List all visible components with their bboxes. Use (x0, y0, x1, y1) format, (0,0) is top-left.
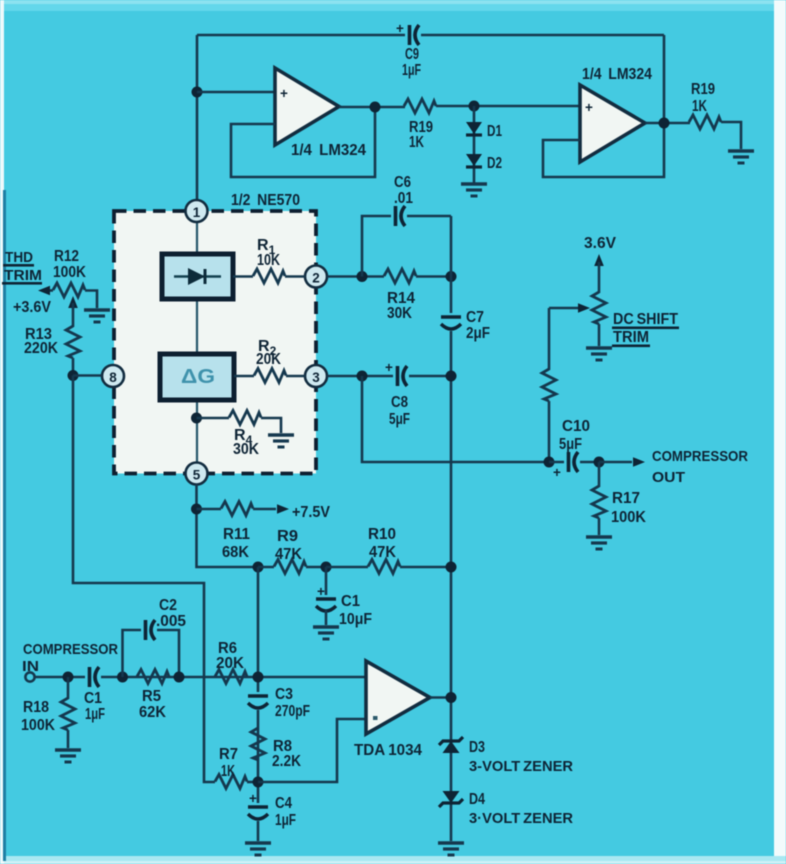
svg-text:2μF: 2μF (466, 325, 490, 342)
wire: down to C10 (548, 401, 551, 462)
node: R7/R8/C4 junction (253, 777, 264, 788)
svg-text:R12: R12 (54, 248, 79, 265)
svg-text:COMPRESSOR: COMPRESSOR (23, 641, 118, 658)
svg-text:+: + (249, 791, 257, 806)
capacitor C6 (.01) loop (362, 174, 451, 277)
ground (DC shift pot) (586, 348, 612, 360)
resistor R18 (100K) (21, 677, 75, 748)
node: U2 output (659, 118, 670, 129)
capacitor C1 input (1uF) (84, 664, 105, 723)
svg-text:3.6V: 3.6V (584, 235, 616, 252)
capacitor C1 (10uF) (313, 567, 372, 628)
svg-text:C3: C3 (275, 686, 293, 703)
svg-text:270pF: 270pF (275, 703, 310, 720)
wire: pin 2 line (327, 275, 384, 278)
resistor R6 (20K) (215, 640, 247, 684)
svg-text:100K: 100K (21, 717, 55, 734)
node: pin 8 junction (68, 370, 79, 381)
svg-text:+: + (585, 100, 593, 115)
op-amp TDA 1034 (366, 661, 430, 734)
resistor R13 (220K) (24, 326, 80, 358)
resistor (DC shift series) (542, 369, 556, 401)
capacitor C7 (2uF) (438, 309, 490, 342)
wire: x258 column (bias to input to C3/R8) (257, 567, 260, 841)
wire: main right column (450, 216, 453, 841)
zener D3 (439, 737, 573, 775)
diode D2 (466, 154, 482, 167)
svg-text:1K: 1K (409, 134, 424, 151)
svg-text:100K: 100K (611, 509, 646, 526)
svg-text:3: 3 (312, 370, 320, 385)
node: R18 junction (63, 672, 74, 683)
svg-text:1/4 LM324: 1/4 LM324 (582, 66, 652, 83)
zener D4 (439, 791, 573, 827)
svg-text:+: + (396, 21, 404, 36)
wire: internal vertical bus (196, 221, 198, 463)
ground (right R19) (728, 151, 754, 163)
potentiometer R12 (100K) (38, 248, 97, 327)
svg-text:8: 8 (109, 370, 117, 385)
wire: C8 column down to out line (362, 376, 549, 462)
IC NE570 dashed block (114, 211, 316, 474)
svg-text:C7: C7 (466, 309, 484, 326)
wire: left vertical to pin 1 (196, 35, 199, 200)
node: pin 3 right junction (446, 371, 457, 382)
ground (R18) (55, 750, 81, 762)
svg-text:1μF: 1μF (402, 62, 421, 79)
wire: R19 to U2 input (436, 105, 580, 108)
wire: pin 8 node down to R7 (73, 376, 215, 783)
svg-text:1: 1 (193, 205, 201, 220)
svg-text:3-VOLT ZENER: 3-VOLT ZENER (469, 758, 573, 775)
resistor R7 (1K) (215, 746, 258, 789)
wire: R13 to pin 8 node (72, 358, 75, 376)
resistor R17 (100K) (592, 462, 646, 535)
rectifier cell (diode box) (162, 254, 233, 299)
node: diode clamp junction (469, 101, 480, 112)
svg-text:30K: 30K (233, 441, 259, 458)
resistor R8 (2.2K) (251, 728, 301, 770)
svg-text:5: 5 (193, 468, 201, 483)
resistor R19 (1K, right) (689, 115, 721, 129)
node: pin 3 / C8 junction (357, 371, 368, 382)
svg-text:R7: R7 (219, 746, 238, 763)
svg-text:1/4 LM324: 1/4 LM324 (291, 142, 366, 159)
svg-text:C10: C10 (562, 418, 590, 435)
svg-text:R11: R11 (223, 526, 250, 543)
diode D1 (466, 122, 482, 135)
capacitor C2 (.005) loop (123, 597, 187, 677)
pin 2 (305, 266, 327, 288)
svg-text:C1: C1 (84, 690, 102, 707)
svg-text:5μF: 5μF (559, 436, 582, 453)
resistor R14 (30K) (384, 269, 451, 322)
svg-text:100K: 100K (53, 264, 86, 281)
svg-text:1μF: 1μF (85, 706, 105, 723)
capacitor C8 (5uF) (385, 360, 410, 428)
ground (C1) (313, 627, 339, 639)
svg-text:20K: 20K (256, 351, 281, 368)
node: pin 2 / C6 junction (357, 271, 368, 282)
svg-text:R17: R17 (612, 490, 640, 507)
svg-text:5μF: 5μF (389, 411, 410, 428)
wire: TDA output (430, 696, 451, 699)
svg-text:1K: 1K (221, 763, 235, 780)
ground (R4) (268, 435, 294, 447)
wire: TDA inverting input path (258, 719, 366, 782)
node: C2/R5 left junction (117, 672, 128, 683)
svg-text:TDA 1034: TDA 1034 (354, 742, 422, 759)
svg-text:THD: THD (5, 249, 33, 266)
svg-text:C6: C6 (394, 174, 411, 191)
wire: U1 + input (197, 91, 275, 94)
input terminal (25, 672, 34, 681)
wire: U2 feedback loop (543, 123, 664, 177)
label DC SHIFT TRIM (612, 311, 679, 347)
svg-text:C1: C1 (341, 593, 360, 610)
svg-text:20K: 20K (216, 655, 244, 672)
page left edge line (3, 190, 6, 861)
node: compressor out junction (594, 457, 605, 468)
arrow: compressor out (599, 448, 748, 486)
pin 5 (186, 463, 208, 485)
node: R5 right junction (174, 672, 185, 683)
svg-text:3·VOLT ZENER: 3·VOLT ZENER (469, 810, 573, 827)
svg-text:R10: R10 (368, 526, 396, 543)
svg-text:R9: R9 (277, 528, 298, 545)
wire: U1 feedback loop (231, 107, 375, 177)
gain cell (delta-G box) (160, 354, 234, 400)
op-amp U1 (1/4 LM324) (275, 68, 339, 145)
svg-text:D3: D3 (469, 739, 485, 756)
svg-text:D2: D2 (487, 155, 502, 172)
resistor R9 (47K) (258, 528, 326, 574)
svg-text:R18: R18 (23, 699, 49, 716)
svg-text:D1: D1 (487, 123, 502, 140)
svg-text:220K: 220K (24, 340, 58, 357)
wire: R19 to ground (721, 122, 741, 149)
node: C10 left (544, 457, 555, 468)
pin 8 (102, 365, 124, 387)
svg-text:1μF: 1μF (275, 812, 296, 829)
node: C1 bias junction (321, 562, 332, 573)
svg-text:D4: D4 (469, 791, 485, 808)
svg-text:2: 2 (312, 271, 320, 286)
svg-text:10μF: 10μF (339, 611, 372, 628)
svg-text:30K: 30K (387, 305, 412, 322)
svg-text:.005: .005 (156, 613, 186, 630)
svg-text:C4: C4 (275, 795, 292, 812)
svg-text:.01: .01 (394, 190, 413, 207)
resistor R4 (30K) (197, 411, 282, 459)
pin 3 (305, 365, 327, 387)
node: right column bias junction (446, 562, 457, 573)
resistor R5 (62K) (137, 670, 169, 722)
ground (R17) (586, 537, 612, 549)
svg-text:R5: R5 (142, 688, 161, 705)
potentiometer DC SHIFT TRIM (549, 292, 606, 370)
wire: input line (35, 676, 365, 679)
node: input / C3 junction (253, 672, 264, 683)
resistor R11 (68K) to +7.5V (197, 502, 331, 562)
node: bias line left (253, 562, 264, 573)
svg-text:47K: 47K (275, 546, 302, 563)
svg-text:C2: C2 (159, 597, 177, 614)
svg-text:10K: 10K (257, 252, 280, 269)
svg-text:+: + (317, 584, 325, 599)
svg-text:+7.5V: +7.5V (292, 504, 330, 521)
capacitor C10 (5uF) (549, 418, 599, 480)
wire: top feedback bus (197, 34, 664, 37)
op-amp U2 (1/4 LM324) (580, 85, 645, 162)
capacitor C4 (1uF) (245, 791, 296, 829)
node: U1 output (370, 102, 381, 113)
ground (diode clamp) (461, 184, 487, 196)
svg-text:+: + (280, 86, 288, 101)
svg-text:DC SHIFT: DC SHIFT (613, 311, 678, 328)
wire: U1 output (339, 106, 405, 109)
svg-text:68K: 68K (222, 544, 249, 561)
svg-text:C8: C8 (391, 394, 408, 411)
svg-text:1/2 NE570: 1/2 NE570 (231, 192, 300, 209)
label THD TRIM (2, 249, 42, 285)
wire: pin 8 lead (73, 374, 102, 377)
svg-text:1K: 1K (692, 98, 707, 115)
svg-text:+: + (385, 360, 393, 375)
svg-text:+3.6V: +3.6V (13, 299, 51, 316)
arrow: 3.6V supply (594, 254, 604, 293)
wire: pin 5 down (197, 484, 259, 567)
svg-text:C9: C9 (405, 46, 419, 63)
svg-text:R19: R19 (691, 81, 715, 98)
pin 1 (186, 200, 208, 222)
wire: pin 3 line (327, 375, 451, 378)
svg-text:47K: 47K (369, 544, 396, 561)
svg-text:2.2K: 2.2K (272, 753, 301, 770)
node: op-amp U1 + input junction (192, 87, 203, 98)
svg-text:OUT: OUT (652, 469, 685, 486)
node: R14/C6/C7 junction (446, 271, 457, 282)
ground (C4) (245, 843, 271, 855)
label COMPRESSOR IN (22, 641, 118, 675)
svg-text:COMPRESSOR: COMPRESSOR (652, 448, 748, 465)
svg-text:ΔG: ΔG (181, 366, 215, 388)
ground (R12) (84, 310, 110, 322)
svg-text:62K: 62K (139, 704, 166, 721)
capacitor C3 (270pF) (245, 686, 310, 720)
wire: diode branch down (473, 106, 476, 183)
node: TDA output junction (446, 692, 457, 703)
svg-text:+: + (553, 465, 561, 480)
resistor R1 (10K) (233, 237, 305, 283)
svg-text:TRIM: TRIM (613, 329, 649, 346)
node: R11 junction (191, 504, 202, 515)
wire: top bus drop to U2 output (663, 35, 666, 123)
svg-text:TRIM: TRIM (4, 267, 42, 284)
node: gain-cell bottom (191, 413, 202, 424)
wire: U2 output (645, 122, 690, 125)
resistor R10 (47K) (326, 526, 451, 574)
resistor R2 (20K) (234, 338, 305, 383)
capacitor C9 (1uF) (396, 21, 421, 79)
resistor R19 (1K, mid) (404, 99, 436, 113)
ground (zeners) (438, 843, 464, 855)
